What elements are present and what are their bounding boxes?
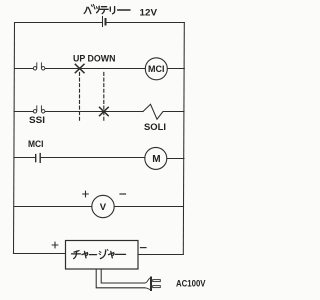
svg-text:MCI: MCI [28,139,44,150]
svg-text:AC100V: AC100V [176,278,206,289]
svg-text:12V: 12V [140,7,158,18]
svg-text:SSI: SSI [29,115,45,126]
svg-text:V: V [100,202,107,213]
svg-text:M: M [152,154,160,165]
svg-text:SOLI: SOLI [144,122,166,133]
svg-text:MCI: MCI [148,64,165,75]
svg-text:UP DOWN: UP DOWN [73,54,116,65]
